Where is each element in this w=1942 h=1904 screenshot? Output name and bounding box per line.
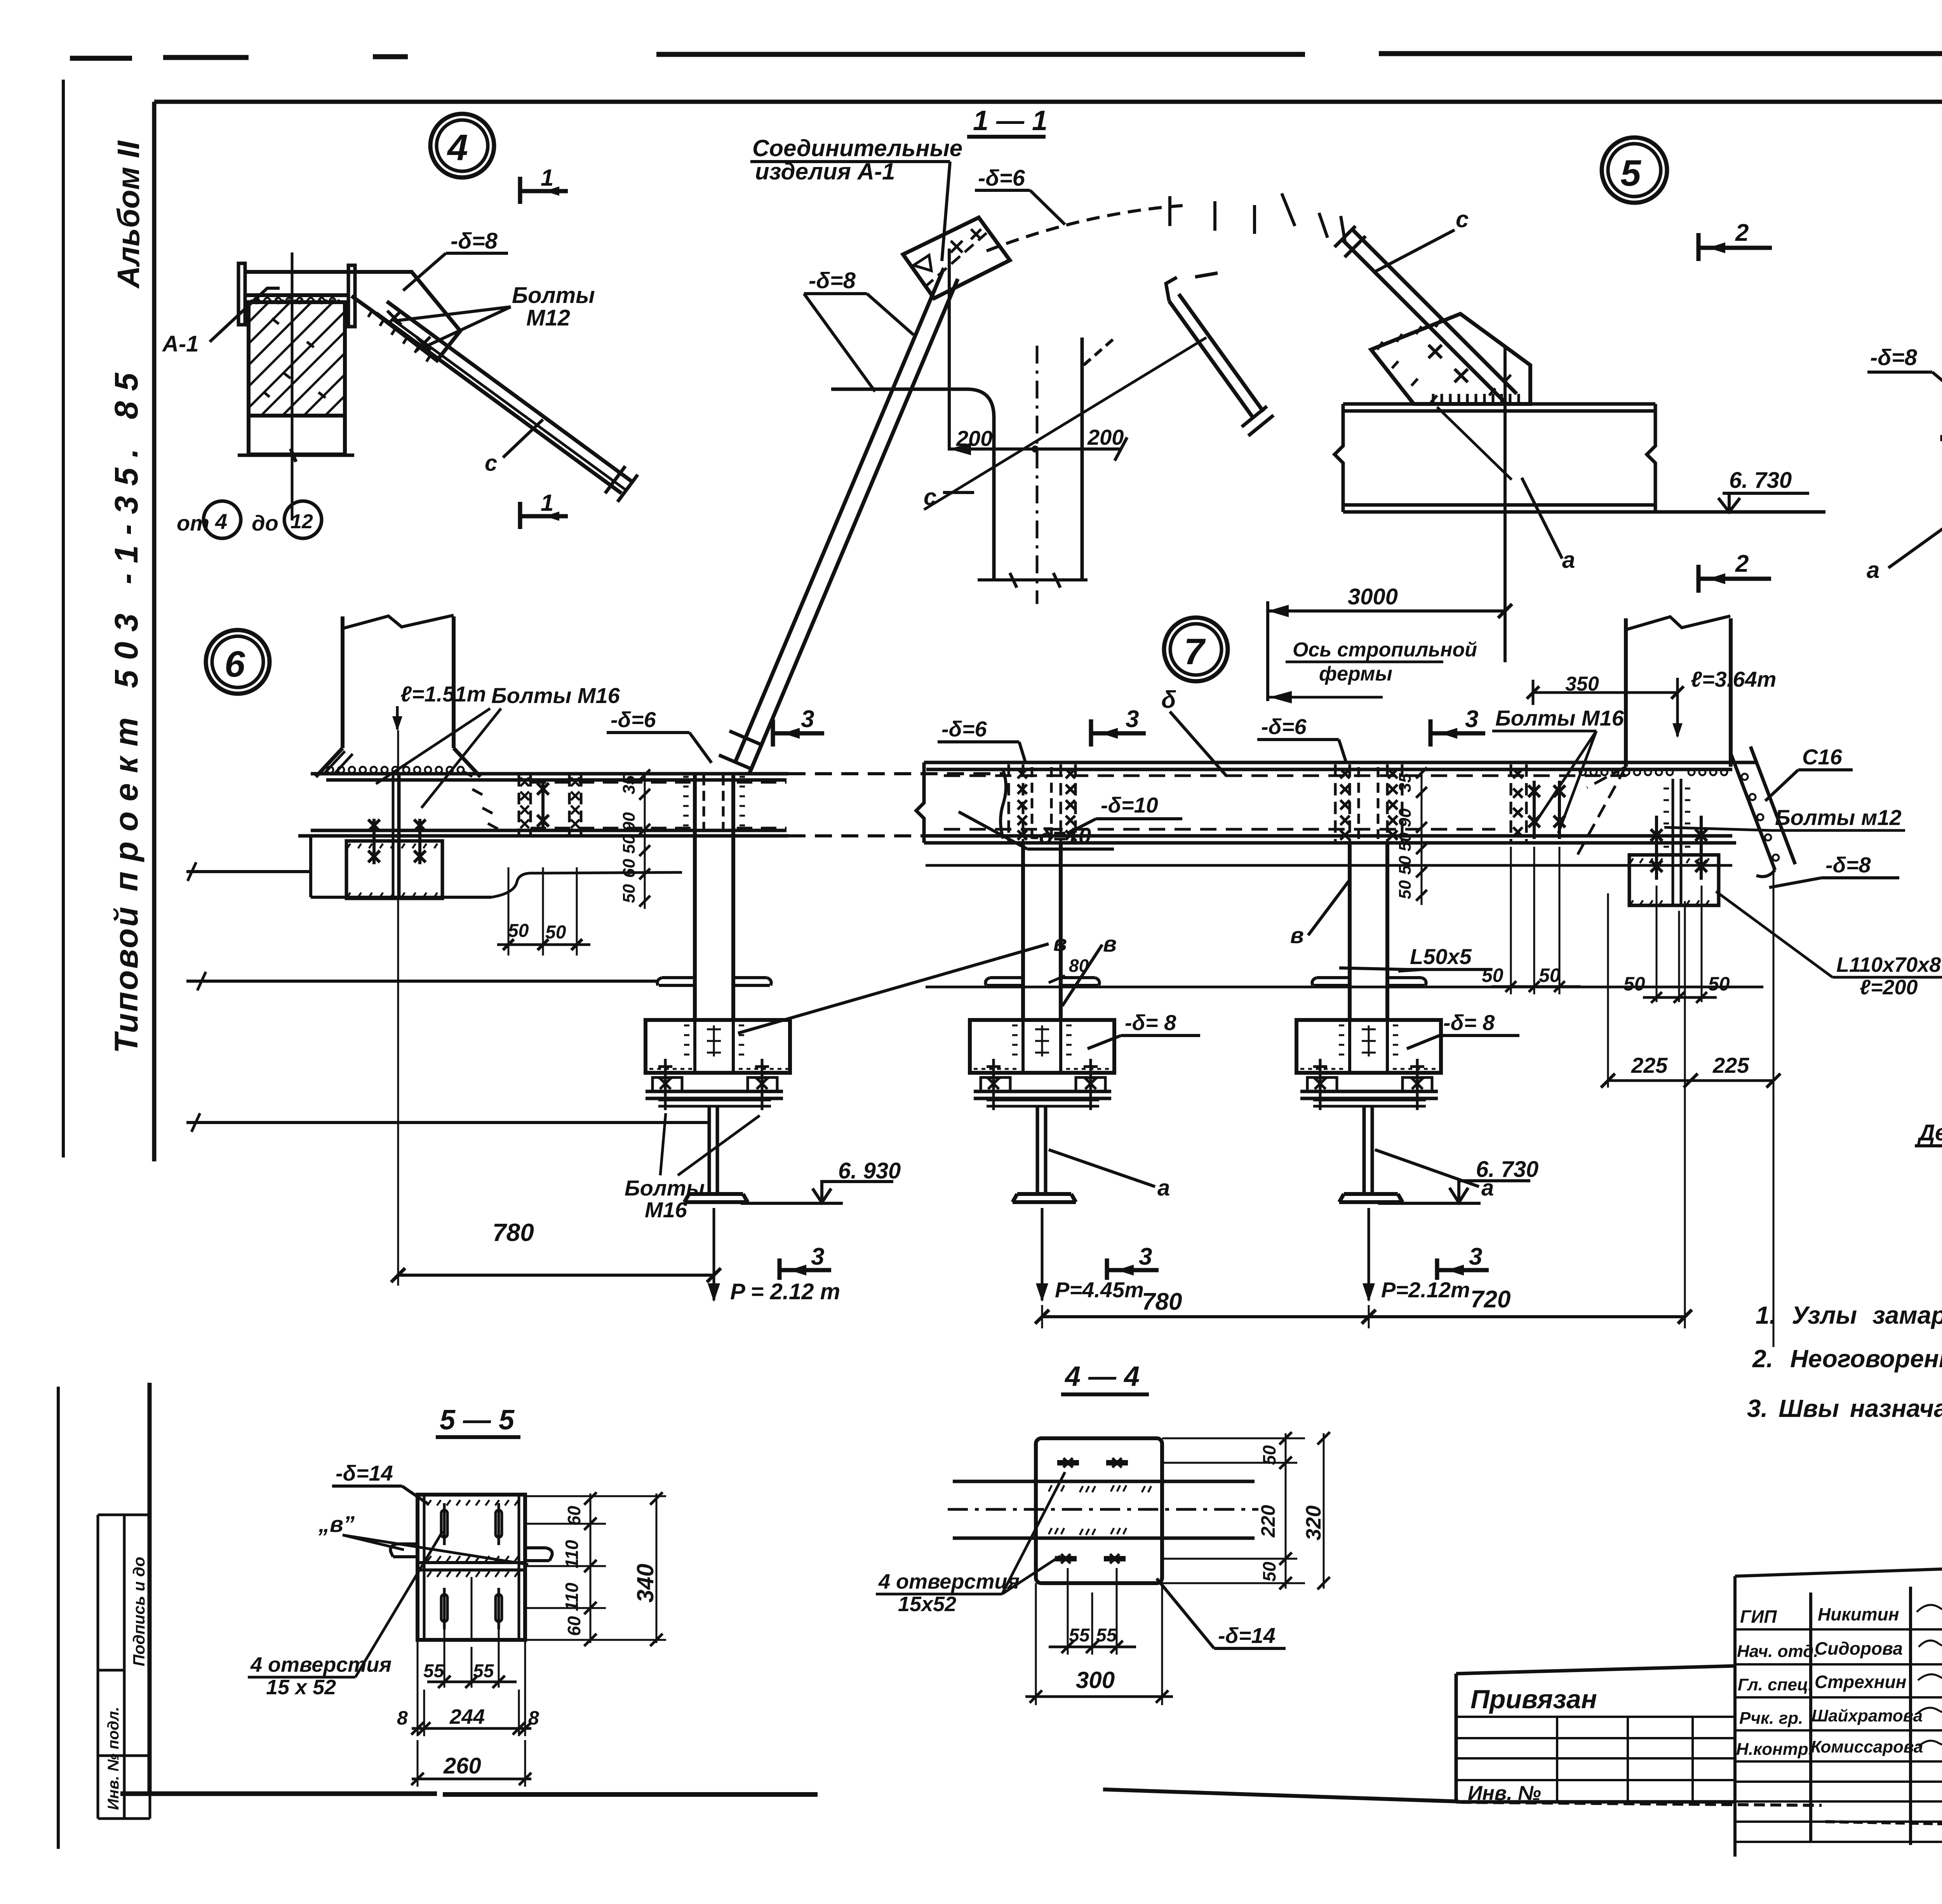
svg-text:780: 780 bbox=[1142, 1288, 1182, 1315]
svg-text:-δ= 8: -δ= 8 bbox=[1443, 1010, 1495, 1035]
svg-text:Рчк. гр.: Рчк. гр. bbox=[1739, 1709, 1803, 1728]
svg-text:1. Узлы замаркированы на ли: 1. Узлы замаркированы на листе 6. bbox=[1756, 1301, 1942, 1329]
svg-text:Альбом II: Альбом II bbox=[111, 140, 146, 289]
svg-text:-δ=10: -δ=10 bbox=[1101, 793, 1158, 817]
svg-text:-δ=8: -δ=8 bbox=[1825, 853, 1871, 877]
svg-text:50: 50 bbox=[619, 884, 639, 903]
svg-text:340: 340 bbox=[632, 1564, 658, 1603]
svg-text:-δ=14: -δ=14 bbox=[1218, 1623, 1276, 1648]
svg-text:60: 60 bbox=[564, 1616, 584, 1636]
svg-text:с: с bbox=[1456, 206, 1469, 232]
svg-text:60: 60 bbox=[564, 1505, 584, 1526]
svg-text:50: 50 bbox=[1259, 1561, 1279, 1582]
svg-text:200: 200 bbox=[956, 426, 992, 451]
svg-text:50: 50 bbox=[1539, 964, 1561, 986]
svg-text:-δ=6: -δ=6 bbox=[941, 717, 987, 741]
svg-text:3: 3 bbox=[1465, 706, 1478, 733]
svg-text:с: с bbox=[485, 451, 497, 476]
svg-text:L50x5: L50x5 bbox=[1410, 944, 1472, 969]
svg-text:в: в bbox=[1290, 923, 1304, 948]
svg-text:110: 110 bbox=[562, 1540, 582, 1568]
svg-text:Нач. отд.: Нач. отд. bbox=[1737, 1642, 1818, 1661]
svg-text:L110x70x8: L110x70x8 bbox=[1836, 953, 1941, 976]
svg-text:50: 50 bbox=[1396, 880, 1415, 899]
svg-text:ℓ=1.51т: ℓ=1.51т bbox=[400, 682, 486, 706]
svg-text:50: 50 bbox=[508, 921, 529, 941]
svg-text:225: 225 bbox=[1712, 1053, 1749, 1077]
svg-text:8: 8 bbox=[397, 1707, 408, 1729]
svg-text:Шайхратова: Шайхратова bbox=[1811, 1706, 1923, 1725]
svg-text:90: 90 bbox=[1396, 808, 1415, 827]
svg-text:1: 1 bbox=[541, 165, 553, 191]
svg-text:6: 6 bbox=[224, 644, 245, 685]
svg-text:50: 50 bbox=[1396, 832, 1415, 851]
svg-text:90: 90 bbox=[619, 812, 639, 831]
svg-text:1 — 1: 1 — 1 bbox=[973, 105, 1048, 136]
svg-text:Соединительные: Соединительные bbox=[752, 135, 962, 161]
svg-text:2: 2 bbox=[1735, 550, 1749, 577]
svg-text:-δ=8: -δ=8 bbox=[451, 228, 498, 254]
svg-text:ГИП: ГИП bbox=[1740, 1606, 1777, 1627]
svg-text:50: 50 bbox=[1482, 964, 1503, 986]
svg-text:260: 260 bbox=[443, 1753, 481, 1779]
svg-text:Болты М16: Болты М16 bbox=[1495, 706, 1624, 730]
svg-text:3: 3 bbox=[1126, 706, 1139, 733]
svg-text:225: 225 bbox=[1631, 1053, 1668, 1077]
svg-text:7: 7 bbox=[1184, 631, 1206, 672]
svg-text:Никитин: Никитин bbox=[1818, 1604, 1899, 1624]
svg-text:а: а bbox=[1157, 1175, 1170, 1201]
svg-text:55: 55 bbox=[473, 1661, 494, 1681]
svg-text:М12: М12 bbox=[526, 305, 570, 331]
svg-text:6. 730: 6. 730 bbox=[1729, 468, 1792, 493]
svg-text:-δ=6: -δ=6 bbox=[978, 165, 1025, 191]
svg-text:Болты М16: Болты М16 bbox=[491, 683, 620, 708]
svg-text:50: 50 bbox=[1259, 1445, 1279, 1465]
svg-text:2: 2 bbox=[1735, 219, 1749, 246]
svg-text:А-1: А-1 bbox=[162, 331, 198, 357]
svg-text:-δ=8: -δ=8 bbox=[809, 268, 856, 293]
svg-text:5: 5 bbox=[1620, 153, 1641, 194]
svg-text:в: в bbox=[1103, 931, 1117, 957]
svg-text:проект 503 -1-35. 85: проект 503 -1-35. 85 bbox=[108, 363, 144, 891]
svg-text:Болты м12: Болты м12 bbox=[1775, 805, 1902, 830]
svg-text:С16: С16 bbox=[1802, 745, 1843, 769]
svg-text:Привязан: Привязан bbox=[1470, 1685, 1597, 1714]
svg-text:3000: 3000 bbox=[1348, 584, 1398, 609]
svg-text:ℓ=3.64т: ℓ=3.64т bbox=[1691, 667, 1776, 691]
svg-text:300: 300 bbox=[1076, 1667, 1115, 1693]
svg-text:320: 320 bbox=[1302, 1505, 1325, 1540]
svg-text:50: 50 bbox=[619, 835, 639, 854]
svg-text:4 — 4: 4 — 4 bbox=[1064, 1361, 1140, 1392]
svg-text:15 х 52: 15 х 52 bbox=[266, 1676, 336, 1699]
svg-text:60: 60 bbox=[619, 859, 639, 878]
svg-text:12: 12 bbox=[291, 510, 313, 533]
svg-text:220: 220 bbox=[1257, 1505, 1279, 1538]
svg-text:1: 1 bbox=[541, 490, 553, 516]
svg-text:2. Неоговоренные болты - м: 2. Неоговоренные болты - м12. bbox=[1752, 1345, 1942, 1373]
svg-text:15х52: 15х52 bbox=[898, 1592, 956, 1616]
svg-text:а: а bbox=[1867, 557, 1879, 583]
svg-text:80: 80 bbox=[1069, 955, 1089, 976]
svg-text:4: 4 bbox=[215, 509, 227, 534]
svg-text:-δ=8: -δ=8 bbox=[1870, 345, 1918, 370]
svg-text:Типовой: Типовой bbox=[108, 905, 144, 1053]
svg-text:4: 4 bbox=[447, 127, 468, 168]
svg-text:δ: δ bbox=[1161, 686, 1176, 713]
svg-text:а: а bbox=[1562, 547, 1575, 573]
svg-text:55: 55 bbox=[1069, 1625, 1090, 1646]
svg-text:-δ=6: -δ=6 bbox=[1261, 714, 1307, 739]
svg-text:P = 2.12 m: P = 2.12 m bbox=[730, 1279, 840, 1304]
svg-text:-δ=6: -δ=6 bbox=[611, 707, 656, 732]
svg-text:3. Швы назначаются конструк: 3. Швы назначаются конструктивно и по ус… bbox=[1747, 1394, 1942, 1422]
svg-text:55: 55 bbox=[423, 1661, 445, 1681]
svg-text:3: 3 bbox=[1139, 1243, 1152, 1270]
svg-text:Сидорова: Сидорова bbox=[1815, 1638, 1903, 1659]
svg-text:P=4.45т: P=4.45т bbox=[1055, 1277, 1144, 1302]
svg-text:780: 780 bbox=[492, 1218, 534, 1246]
svg-text:Инв. №: Инв. № bbox=[1468, 1782, 1541, 1805]
svg-text:Стрехнин: Стрехнин bbox=[1815, 1672, 1906, 1692]
svg-text:3: 3 bbox=[801, 706, 814, 733]
svg-text:Н.контр.: Н.контр. bbox=[1736, 1740, 1813, 1759]
svg-text:110: 110 bbox=[562, 1582, 582, 1611]
svg-text:-δ=14: -δ=14 bbox=[336, 1461, 393, 1485]
svg-text:50: 50 bbox=[545, 922, 566, 943]
svg-text:Подпись и до: Подпись и до bbox=[130, 1557, 148, 1666]
svg-text:3: 3 bbox=[1469, 1243, 1482, 1270]
svg-text:720: 720 bbox=[1470, 1286, 1510, 1313]
svg-text:5 — 5: 5 — 5 bbox=[440, 1405, 515, 1436]
svg-text:4 отверстия: 4 отверстия bbox=[878, 1570, 1020, 1593]
svg-text:50: 50 bbox=[1708, 973, 1730, 995]
svg-text:Инв. № подл.: Инв. № подл. bbox=[105, 1707, 122, 1810]
svg-text:6. 930: 6. 930 bbox=[838, 1158, 901, 1183]
svg-text:до: до bbox=[252, 511, 278, 535]
svg-text:фермы: фермы bbox=[1319, 663, 1392, 685]
svg-text:35: 35 bbox=[1396, 773, 1415, 792]
svg-text:3: 3 bbox=[811, 1243, 824, 1270]
svg-text:50: 50 bbox=[1624, 973, 1645, 995]
svg-text:Ось стропильной: Ось стропильной bbox=[1293, 639, 1477, 661]
svg-text:4 отверстия: 4 отверстия bbox=[250, 1653, 392, 1676]
svg-text:„в”: „в” bbox=[318, 1512, 355, 1537]
svg-text:55: 55 bbox=[1096, 1625, 1117, 1646]
svg-text:-δ= 8: -δ= 8 bbox=[1125, 1010, 1176, 1035]
svg-text:М16: М16 bbox=[645, 1197, 687, 1222]
svg-text:200: 200 bbox=[1087, 425, 1124, 449]
svg-text:Комиссарова: Комиссарова bbox=[1811, 1737, 1923, 1756]
svg-text:35: 35 bbox=[619, 775, 639, 794]
svg-text:244: 244 bbox=[449, 1705, 485, 1728]
svg-text:6. 730: 6. 730 bbox=[1476, 1157, 1538, 1182]
svg-text:Болты: Болты bbox=[625, 1176, 705, 1200]
svg-text:ℓ=200: ℓ=200 bbox=[1860, 976, 1918, 999]
svg-text:Болты: Болты bbox=[512, 283, 595, 308]
svg-text:Деталь „А”: Деталь „А” bbox=[1917, 1120, 1942, 1145]
svg-text:50: 50 bbox=[1396, 856, 1415, 875]
svg-text:P=2.12т: P=2.12т bbox=[1381, 1277, 1470, 1302]
svg-text:Гл. спец.: Гл. спец. bbox=[1738, 1675, 1813, 1694]
svg-text:8: 8 bbox=[528, 1707, 539, 1729]
svg-text:350: 350 bbox=[1565, 673, 1599, 695]
